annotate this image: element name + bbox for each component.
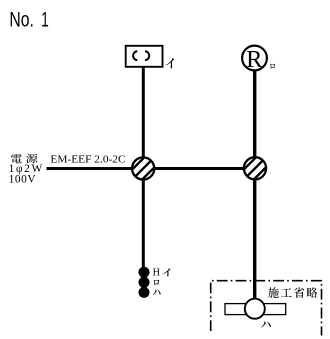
label ha for omitted fixture: [261, 322, 271, 328]
label ro (katakana) for lamp receptacle: [270, 64, 275, 69]
svg-text:H: H: [153, 267, 161, 278]
switch ro (dot): [139, 277, 150, 288]
dashed box: construction omitted area (chain line): [211, 281, 322, 336]
wire: vertical from lamp receptacle through joint box B down to omitted work box: [253, 70, 256, 300]
svg-text:No.: No.: [9, 8, 34, 31]
svg-text:1: 1: [41, 8, 49, 31]
joint box A (VVF junction box, hatched circle): [126, 152, 160, 186]
svg-text:EM-EEF 2.0-2C: EM-EEF 2.0-2C: [50, 154, 125, 166]
wire: vertical from ceiling rosette through joint box A down to switches: [142, 66, 145, 268]
lamp receptacle R: [242, 46, 267, 73]
fluorescent lamp fixture (work omitted): [225, 299, 286, 319]
label ro for switch 2: [154, 280, 160, 285]
svg-text:100V: 100V: [9, 174, 37, 186]
switch ha (dot): [139, 287, 150, 298]
joint box B (VVF junction box, hatched circle): [238, 151, 272, 185]
svg-text:R: R: [246, 46, 263, 73]
power source label 電源: [11, 154, 37, 164]
label H i for switch 1: [153, 267, 171, 278]
wire: main horizontal feed from power source to joint boxes: [47, 167, 244, 170]
label i (katakana) for ceiling rosette: [166, 58, 174, 68]
label 施工省略 (construction omitted): [268, 287, 318, 298]
switch i (single-pole switch, dot): [139, 267, 150, 278]
label ha for switch 3: [153, 290, 161, 296]
ceiling rosette box (hikkake ceiling, square type): [126, 46, 163, 67]
